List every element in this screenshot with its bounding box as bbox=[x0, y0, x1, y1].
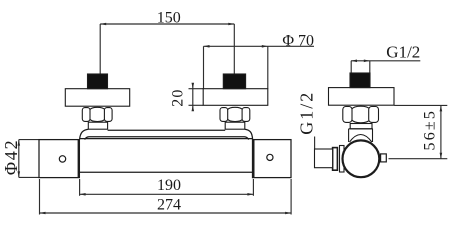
svg-text:274: 274 bbox=[157, 196, 181, 213]
svg-text:G1/2: G1/2 bbox=[296, 91, 316, 135]
svg-text:G1/2: G1/2 bbox=[386, 43, 420, 62]
svg-text:190: 190 bbox=[157, 177, 181, 194]
svg-text:56±5: 56±5 bbox=[422, 109, 439, 151]
svg-text:Φ 70: Φ 70 bbox=[282, 32, 314, 49]
svg-text:20: 20 bbox=[170, 88, 187, 106]
svg-text:Φ42: Φ42 bbox=[1, 139, 21, 176]
svg-text:150: 150 bbox=[157, 9, 181, 26]
